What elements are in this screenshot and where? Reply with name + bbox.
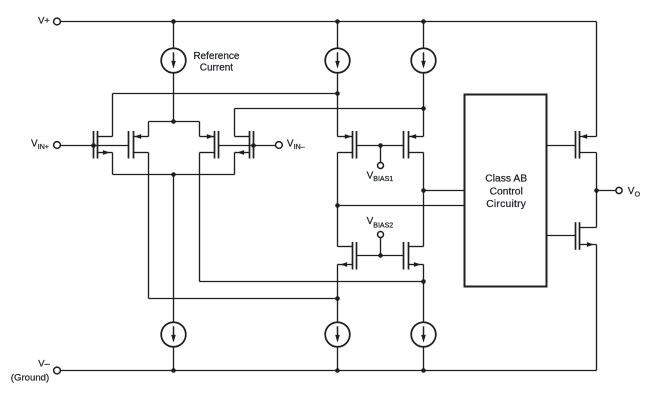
svg-text:BIAS1: BIAS1	[373, 176, 393, 183]
svg-text:Circuitry: Circuitry	[486, 199, 527, 210]
svg-text:V+: V+	[38, 15, 50, 26]
svg-text:BIAS2: BIAS2	[373, 222, 393, 229]
svg-text:IN+: IN+	[38, 144, 49, 151]
svg-text:IN–: IN–	[294, 144, 305, 151]
svg-text:V–: V–	[38, 357, 50, 368]
svg-text:Class AB: Class AB	[485, 174, 527, 185]
svg-text:Current: Current	[200, 62, 234, 73]
svg-text:(Ground): (Ground)	[11, 372, 49, 383]
svg-text:Reference: Reference	[193, 51, 240, 62]
svg-text:Control: Control	[490, 187, 523, 198]
svg-text:O: O	[635, 191, 641, 198]
